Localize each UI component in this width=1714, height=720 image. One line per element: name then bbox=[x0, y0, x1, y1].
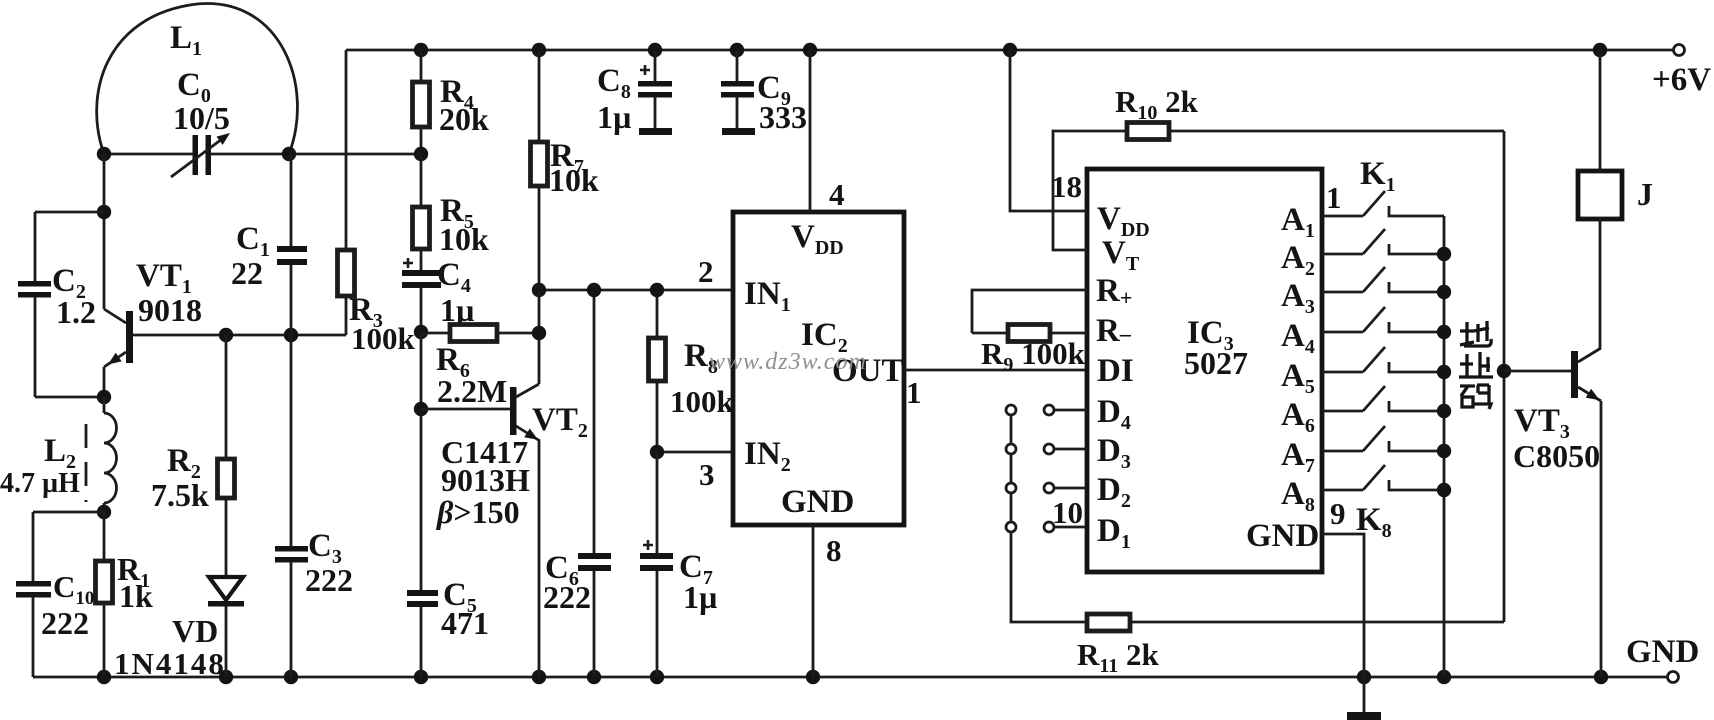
junction K bus bbox=[1437, 444, 1451, 458]
switch K2 blade bbox=[1363, 229, 1385, 254]
junction bottom rail IC2 GND bbox=[806, 670, 820, 684]
junction R8 IN2 C7 bbox=[650, 445, 664, 459]
capacitor C2 bbox=[35, 211, 104, 214]
svg-text:20k: 20k bbox=[439, 101, 489, 137]
wire collector column bbox=[538, 290, 541, 384]
capacitor C8 1u electrolytic bbox=[654, 50, 657, 81]
ground bar C8 bbox=[639, 128, 672, 135]
svg-text:10k: 10k bbox=[439, 221, 489, 257]
wire VT1 emitter to L2 bbox=[103, 367, 106, 397]
resistor R1 1k bbox=[103, 512, 106, 561]
svg-text:R10 2k: R10 2k bbox=[1115, 84, 1199, 124]
wire VT2 base bbox=[421, 408, 511, 411]
svg-text:VD: VD bbox=[172, 613, 218, 649]
svg-text:10: 10 bbox=[1052, 495, 1083, 530]
svg-text:1: 1 bbox=[1326, 180, 1342, 215]
op-amp/receiver IC2 box bbox=[733, 212, 904, 525]
svg-text:8: 8 bbox=[826, 533, 842, 568]
wire IC3 D2 pin stub bbox=[1054, 487, 1087, 490]
jumper pin D4 right bbox=[1044, 405, 1054, 415]
svg-text:1.2: 1.2 bbox=[56, 294, 96, 330]
wire VT2 emitter to ground bbox=[538, 441, 541, 677]
junction top rail IC2 VDD bbox=[803, 43, 817, 57]
switch K7 pin stub A7 bbox=[1322, 450, 1363, 453]
jumper pin D2 left bbox=[1006, 483, 1016, 493]
svg-text:R11 2k: R11 2k bbox=[1077, 637, 1160, 677]
switch K4 pin stub A4 bbox=[1322, 331, 1363, 334]
svg-text:www.dz3w.com: www.dz3w.com bbox=[709, 349, 867, 375]
switch K5 pin stub A5 bbox=[1322, 371, 1363, 374]
junction top rail relay J bbox=[1593, 43, 1607, 57]
junction bottom rail VT2 emitter bbox=[532, 670, 546, 684]
resistor R11 2k bbox=[1087, 614, 1130, 631]
resistor R3 100k bbox=[338, 250, 355, 296]
svg-text:333: 333 bbox=[759, 99, 807, 135]
switch K8 pin stub A8 bbox=[1322, 489, 1363, 492]
svg-text:10k: 10k bbox=[549, 162, 599, 198]
junction bottom rail C7 bbox=[650, 670, 664, 684]
switch K3 pin stub A3 bbox=[1322, 291, 1363, 294]
resistor R5 10k bbox=[420, 154, 423, 207]
svg-text:22: 22 bbox=[231, 255, 263, 291]
junction bottom rail K bus bbox=[1437, 670, 1451, 684]
capacitor C3 222 bbox=[290, 335, 293, 546]
switch K3 contact bbox=[1389, 282, 1444, 292]
capacitor C4 1u electrolytic bbox=[403, 258, 413, 268]
svg-text:C8050: C8050 bbox=[1513, 438, 1600, 474]
svg-text:GND: GND bbox=[1246, 518, 1319, 554]
junction base line R2 bbox=[219, 328, 233, 342]
switch K8 contact bbox=[1389, 480, 1444, 490]
wire IC3 D4 pin stub bbox=[1054, 409, 1087, 412]
junction bottom rail C6 bbox=[587, 670, 601, 684]
svg-text:9018: 9018 bbox=[138, 292, 202, 328]
switch K4 contact bbox=[1389, 322, 1444, 332]
resistor R10 2k bbox=[1127, 123, 1169, 140]
junction K bus bbox=[1437, 365, 1451, 379]
capacitor C9 333 bbox=[736, 50, 739, 81]
junction R4 R5 tank bbox=[414, 147, 428, 161]
resistor R4 20k bbox=[420, 50, 423, 82]
wire IC3 VT pin to R10 bbox=[1053, 131, 1127, 250]
resistor R2 7.5k bbox=[225, 335, 228, 459]
junction top rail R7 bbox=[532, 43, 546, 57]
transistor VT1 9018 bbox=[126, 311, 133, 363]
junction tank right bbox=[282, 147, 296, 161]
switch K6 contact bbox=[1389, 401, 1444, 411]
svg-text:471: 471 bbox=[441, 605, 489, 641]
svg-text:100k: 100k bbox=[351, 321, 416, 356]
junction IN1 R8 bbox=[650, 283, 664, 297]
capacitor C6 222 bbox=[593, 290, 596, 553]
wire relay to VT3 collector bbox=[1599, 219, 1602, 348]
wire VT1 base bias line bbox=[133, 334, 346, 337]
capacitor C1 22 bbox=[290, 154, 293, 246]
junction C2 tap bbox=[97, 205, 111, 219]
junction bottom rail VT3 emitter bbox=[1594, 670, 1608, 684]
wire C4 node down bbox=[420, 332, 423, 590]
switch K5 contact bbox=[1389, 362, 1444, 372]
wire IC3 VDD pin 18 bbox=[1010, 50, 1087, 211]
svg-text:4: 4 bbox=[829, 177, 845, 212]
transistor VT3 C8050 bbox=[1571, 351, 1578, 398]
svg-text:7.5k: 7.5k bbox=[151, 477, 209, 513]
svg-text:GND: GND bbox=[781, 484, 854, 520]
switch K5 blade bbox=[1363, 347, 1385, 372]
wire jumper bus bbox=[1011, 415, 1087, 622]
junction K bus bbox=[1437, 247, 1451, 261]
svg-text:J: J bbox=[1637, 176, 1653, 212]
wire top rail to R3 bbox=[345, 50, 348, 250]
svg-text:100k: 100k bbox=[670, 384, 735, 419]
ground bar C9 bbox=[722, 128, 755, 135]
junction R7 IN1 bbox=[532, 283, 546, 297]
svg-text:1µ: 1µ bbox=[597, 99, 631, 135]
junction bottom rail C3 bbox=[284, 670, 298, 684]
svg-text:2.2M: 2.2M bbox=[437, 373, 507, 409]
wire IC3 D3 pin stub bbox=[1054, 448, 1087, 451]
svg-text:1N4148: 1N4148 bbox=[114, 646, 226, 681]
switch K1 contact bbox=[1389, 206, 1444, 216]
wire IC3 GND pin 9 to chassis bbox=[1322, 534, 1364, 713]
jumper pin D2 right bbox=[1044, 483, 1054, 493]
resistor R8 100k bbox=[656, 290, 659, 338]
svg-text:β>150: β>150 bbox=[436, 494, 520, 530]
svg-text:+6V: +6V bbox=[1652, 62, 1711, 98]
junction L2 bottom bbox=[97, 505, 111, 519]
switch K4 blade bbox=[1363, 307, 1385, 332]
svg-text:18: 18 bbox=[1051, 169, 1082, 204]
jumper pin D3 right bbox=[1044, 444, 1054, 454]
diode VD 1N4148 bbox=[209, 577, 243, 600]
jumper pin D1 left bbox=[1006, 522, 1016, 532]
junction bottom rail C5 bbox=[414, 670, 428, 684]
junction tank left bbox=[97, 147, 111, 161]
wire IC2 OUT to IC3 DI bbox=[904, 369, 1087, 372]
junction IN1 C6 bbox=[587, 283, 601, 297]
switch K1 blade bbox=[1363, 191, 1385, 216]
junction bottom rail IC3 GND bbox=[1357, 670, 1371, 684]
wire IC3 D1 pin stub bbox=[1054, 526, 1087, 529]
svg-text:R9 100k: R9 100k bbox=[981, 336, 1086, 376]
svg-text:1: 1 bbox=[906, 375, 922, 410]
switch K8 blade bbox=[1363, 465, 1385, 490]
relay J bbox=[1578, 171, 1622, 219]
switch K6 blade bbox=[1363, 386, 1385, 411]
junction C4 R6 bbox=[414, 325, 428, 339]
capacitor C10 222 bbox=[33, 511, 104, 514]
svg-text:10/5: 10/5 bbox=[173, 100, 230, 136]
junction R6 collector bbox=[532, 326, 546, 340]
loop antenna coil L1 bbox=[97, 3, 298, 154]
svg-text:1k: 1k bbox=[119, 578, 153, 614]
svg-text:2: 2 bbox=[698, 254, 714, 289]
junction top rail C9 bbox=[730, 43, 744, 57]
wire IC3 R+ loop bbox=[972, 290, 1087, 333]
wire IN2 line bbox=[657, 451, 733, 454]
svg-text:GND: GND bbox=[1626, 634, 1699, 670]
junction K bus bbox=[1437, 483, 1451, 497]
switch K6 pin stub A6 bbox=[1322, 410, 1363, 413]
wire IC2 GND pin 8 bbox=[812, 525, 815, 677]
decoder IC3 5027 box bbox=[1087, 169, 1322, 572]
switch K3 blade bbox=[1363, 267, 1385, 292]
switch K2 contact bbox=[1389, 244, 1444, 254]
wire VT1 collector to tank bbox=[103, 154, 106, 309]
junction bottom rail R1 bbox=[97, 670, 111, 684]
+6V terminal bbox=[1674, 45, 1685, 56]
variable capacitor C0 bbox=[193, 135, 199, 175]
svg-text:222: 222 bbox=[305, 562, 353, 598]
wire ground bottom rail bbox=[33, 676, 1668, 679]
svg-text:9013H: 9013H bbox=[441, 462, 530, 498]
junction emitter node bbox=[97, 390, 111, 404]
junction top rail IC3 VDD bbox=[1003, 43, 1017, 57]
junction K bus bbox=[1437, 325, 1451, 339]
junction K bus bbox=[1437, 404, 1451, 418]
capacitor C7 1u electrolytic bbox=[656, 452, 659, 553]
wire +6V top supply rail bbox=[346, 49, 1674, 52]
inductor L2 4.7uH bbox=[103, 397, 106, 413]
wire rail to relay J bbox=[1599, 50, 1602, 171]
resistor R9 100k bbox=[972, 332, 1008, 335]
svg-text:9: 9 bbox=[1330, 496, 1346, 531]
resistor R7 10k bbox=[538, 50, 541, 142]
wire IN1 line bbox=[539, 289, 733, 292]
switch K1 pin stub A1 bbox=[1322, 215, 1363, 218]
svg-text:3: 3 bbox=[699, 457, 715, 492]
junction VT3 base tap bbox=[1497, 364, 1511, 378]
svg-text:222: 222 bbox=[543, 579, 591, 615]
junction K bus bbox=[1437, 285, 1451, 299]
svg-text:DI: DI bbox=[1097, 353, 1134, 389]
junction base line C1 C3 bbox=[284, 328, 298, 342]
svg-text:222: 222 bbox=[41, 605, 89, 641]
junction VT2 base line bbox=[414, 402, 428, 416]
junction top rail R4 bbox=[414, 43, 428, 57]
svg-text:1µ: 1µ bbox=[683, 579, 717, 615]
jumper pin D1 right bbox=[1044, 522, 1054, 532]
svg-text:4.7 µH: 4.7 µH bbox=[0, 468, 80, 499]
GND terminal bbox=[1668, 672, 1679, 683]
junction bottom rail VD bbox=[219, 670, 233, 684]
resistor R6 2.2M bbox=[421, 332, 450, 335]
label dizhima address code bbox=[1459, 321, 1493, 409]
switch K2 pin stub A2 bbox=[1322, 253, 1363, 256]
svg-text:5027: 5027 bbox=[1184, 345, 1248, 381]
wire R10 right leg down bbox=[1503, 131, 1506, 622]
junction top rail C8 bbox=[648, 43, 662, 57]
wire K switch common bus bbox=[1443, 216, 1446, 677]
wire IC2 VDD pin 4 bbox=[809, 50, 812, 212]
wire tank circuit top line bbox=[104, 153, 193, 156]
jumper pin D3 left bbox=[1006, 444, 1016, 454]
transistor VT2 C1417 9013H bbox=[510, 387, 517, 435]
chassis ground bbox=[1347, 712, 1381, 720]
capacitor C5 471 bbox=[407, 590, 438, 596]
jumper pin D4 left bbox=[1006, 405, 1016, 415]
wire VT3 emitter to ground bbox=[1600, 401, 1603, 677]
wire VT3 base bbox=[1504, 370, 1571, 373]
switch K7 contact bbox=[1389, 441, 1444, 451]
switch K7 blade bbox=[1363, 426, 1385, 451]
